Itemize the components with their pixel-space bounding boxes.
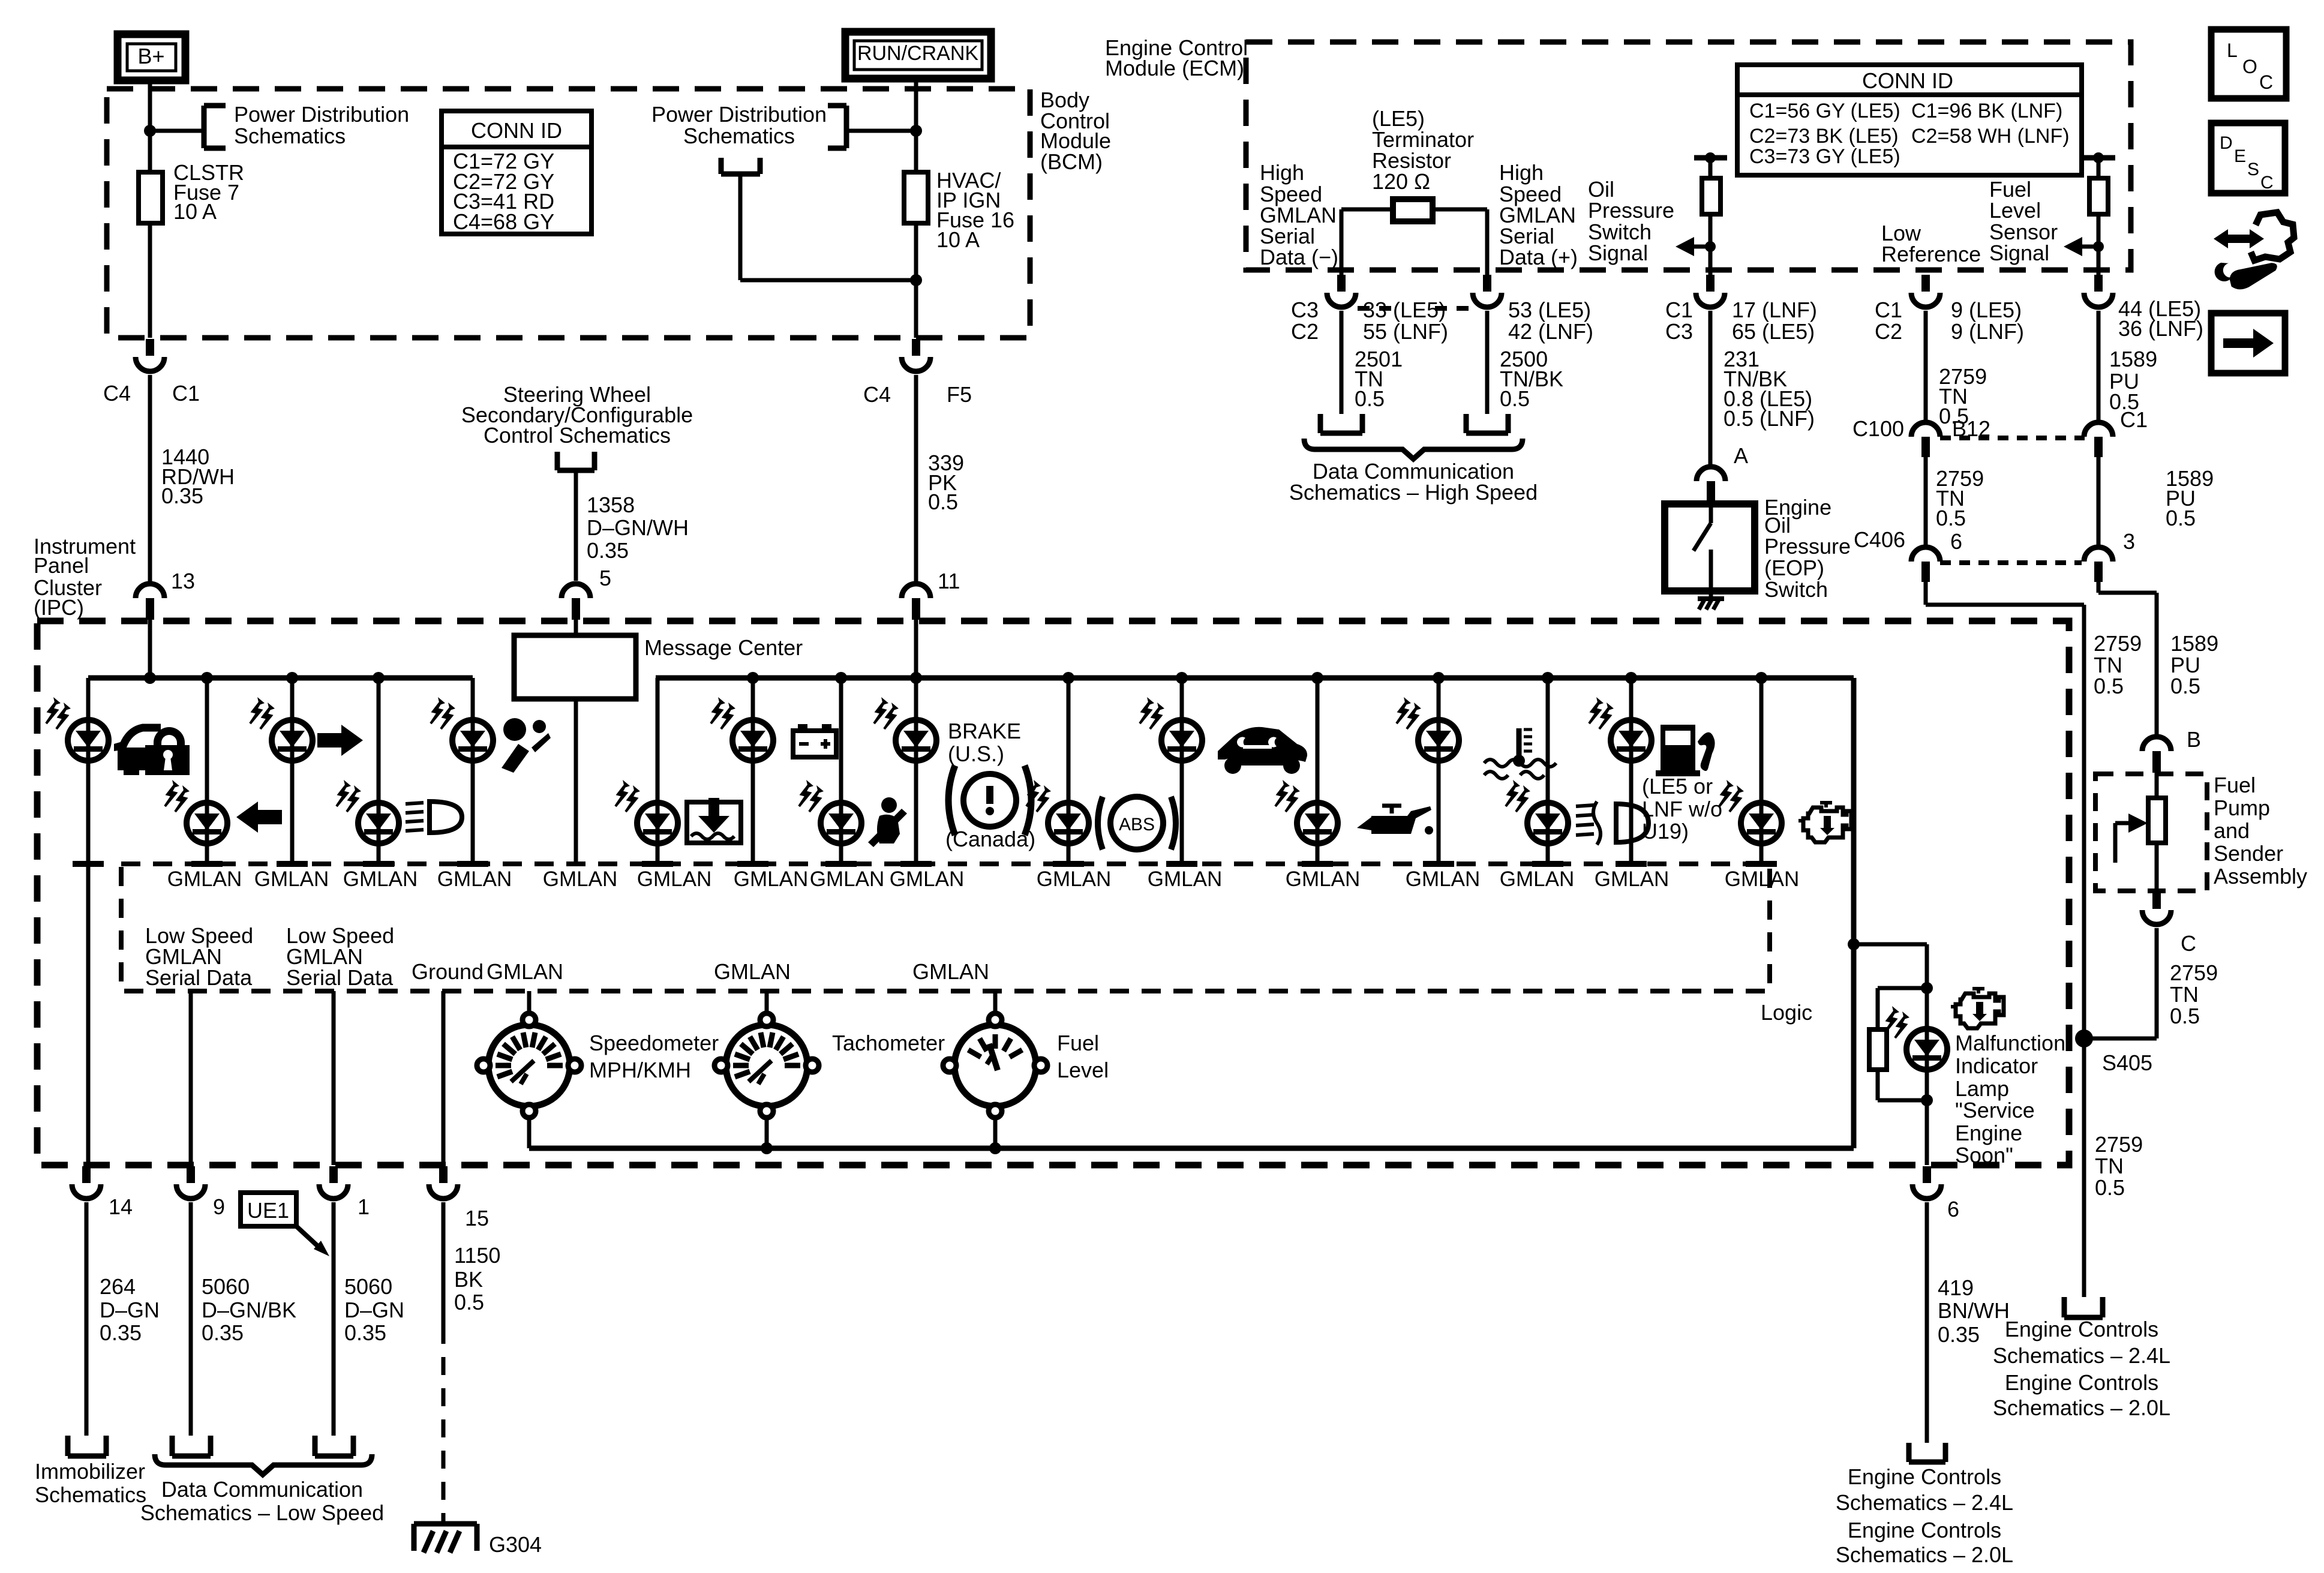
wire column seatbelt [839, 678, 843, 861]
icon vehicle with wrench [1218, 727, 1307, 766]
wire end T-bar vehicle service [1166, 861, 1197, 867]
wire end T-bar battery [737, 861, 768, 867]
svg-text:RUN/CRANK: RUN/CRANK [857, 42, 978, 65]
brace data communication low speed [155, 1454, 372, 1475]
wire end T-bar coolant temp [1423, 861, 1454, 867]
icon fog lamp [1616, 804, 1649, 842]
svg-text:55 (LNF): 55 (LNF) [1363, 319, 1448, 344]
svg-text:0.5: 0.5 [2166, 506, 2196, 530]
svg-text:High: High [1260, 160, 1304, 185]
fuel signal arrow [2064, 237, 2082, 256]
svg-text:Schematics – 2.0L: Schematics – 2.0L [1993, 1395, 2170, 1420]
svg-text:A: A [1734, 443, 1748, 468]
icon airbag person [503, 718, 526, 741]
svg-text:C1: C1 [2120, 407, 2148, 432]
connector C406/3 entry [2084, 547, 2113, 562]
icon seatbelt person [881, 797, 897, 813]
svg-text:Fuel: Fuel [2214, 773, 2256, 797]
svg-text:Signal: Signal [1989, 241, 2049, 265]
wire tachometer feed [765, 991, 769, 1014]
wire end T-bar security [73, 861, 104, 867]
svg-text:11: 11 [938, 569, 960, 593]
svg-text:C1=56 GY (LE5): C1=56 GY (LE5) [1749, 100, 1900, 122]
junction dot MIL branch [1848, 938, 1860, 950]
svg-text:Immobilizer: Immobilizer [35, 1459, 145, 1484]
svg-text:C100: C100 [1852, 416, 1904, 441]
svg-text:GMLAN: GMLAN [543, 867, 617, 891]
svg-text:Switch: Switch [1764, 577, 1828, 602]
svg-text:C2=73 BK (LE5): C2=73 BK (LE5) [1749, 125, 1899, 148]
junction dot at HVAC wire [910, 274, 922, 286]
icon arrow box [2211, 313, 2285, 373]
svg-text:C1: C1 [1665, 298, 1693, 322]
EOP switch box [1665, 504, 1755, 591]
svg-text:0.5 (LNF): 0.5 (LNF) [1724, 406, 1815, 431]
connector 15 exit IPC [439, 1166, 448, 1183]
EOP switch symbol [1709, 504, 1713, 523]
svg-text:264: 264 [100, 1274, 136, 1299]
svg-text:(BCM): (BCM) [1040, 149, 1103, 174]
svg-text:Pressure: Pressure [1588, 198, 1674, 223]
connector C4/F5 exit [912, 339, 920, 356]
wire column coolant temp [1437, 678, 1441, 861]
fuel sender wiper arrow [2113, 823, 2118, 863]
svg-text:GMLAN: GMLAN [637, 867, 711, 891]
gauge bus [529, 1146, 1854, 1151]
dashed box fuel pump assembly [2095, 774, 2207, 891]
wire end T-bar fog lamp [1532, 861, 1563, 867]
wire into IPC to bus (brake column) [914, 619, 918, 678]
svg-text:GMLAN: GMLAN [1595, 867, 1669, 891]
wire 419 BN/WH [1925, 1202, 1929, 1443]
svg-text:C: C [2260, 173, 2274, 193]
svg-text:Data (−): Data (−) [1260, 245, 1338, 269]
icon security car+lock [118, 748, 174, 770]
wire fuse16 to BCM edge [914, 223, 918, 338]
junction dot tach bus [761, 1142, 773, 1154]
wire from bracket down and right [738, 174, 743, 280]
svg-text:Pressure: Pressure [1764, 534, 1851, 559]
svg-text:2759: 2759 [2095, 1132, 2143, 1157]
junction dot bus x=1255 [747, 672, 759, 684]
wire 2759 TN jog right [1924, 582, 1928, 605]
svg-text:1150: 1150 [454, 1243, 500, 1268]
ground symbol EOP [1709, 591, 1713, 599]
right rail down to MIL junction [1851, 678, 1857, 1148]
wire column brake [914, 678, 918, 861]
wire column fuel [1629, 678, 1634, 861]
connector 14 exit IPC [82, 1166, 91, 1183]
fuse CLSTR Fuse 7 [139, 172, 163, 223]
svg-text:Pump: Pump [2214, 795, 2270, 820]
inline dashed connector line between data wires [1358, 306, 1398, 311]
wire serial data 1 [189, 991, 193, 1165]
connector data- exit ECM [1337, 275, 1346, 292]
wire message center to logic box [574, 699, 578, 861]
svg-text:0.5: 0.5 [1355, 386, 1385, 411]
svg-text:419: 419 [1938, 1275, 1974, 1300]
fuel signal resistor [2097, 158, 2101, 178]
MIL parallel resistor loop [1878, 986, 1927, 990]
junction dot run/crank branch [910, 125, 922, 137]
connector fuelsig exit ECM [2094, 275, 2103, 292]
wire tachometer to gauge bus [765, 1117, 769, 1148]
svg-text:B: B [2187, 727, 2201, 752]
icon DESC box [2211, 123, 2285, 193]
LED indicator fog lamp [1506, 780, 1568, 843]
svg-text:C4: C4 [103, 381, 131, 406]
junction dot fuel bus [989, 1142, 1001, 1154]
junction dot bus x=1402 [835, 672, 847, 684]
LED indicator turn left [165, 780, 227, 843]
svg-text:S405: S405 [2102, 1050, 2152, 1075]
svg-text:0.5: 0.5 [2170, 1004, 2200, 1028]
svg-text:CONN ID: CONN ID [1862, 68, 1953, 93]
wire column headlamp [377, 678, 381, 861]
svg-text:Tachometer: Tachometer [832, 1031, 945, 1055]
connector C exit fuel pump [2152, 892, 2161, 909]
wire to message center box [574, 619, 578, 635]
wire from C to S405 [2155, 928, 2159, 1038]
junction dot power at bus [144, 672, 156, 684]
wire to power-distribution bracket [150, 129, 204, 133]
wire fuel to gauge bus [993, 1117, 998, 1148]
label UE1 box [241, 1193, 296, 1226]
wire column security [86, 678, 91, 1165]
connector C406/6 entry [1911, 547, 1940, 562]
LED indicator airbag [431, 697, 493, 761]
connector lowref exit ECM [1921, 275, 1930, 292]
connector 1 exit IPC [329, 1166, 338, 1183]
svg-text:D–GN/WH: D–GN/WH [587, 515, 689, 540]
connector C100/B12 entry [1911, 422, 1940, 437]
svg-text:GMLAN: GMLAN [714, 959, 791, 984]
svg-text:65 (LE5): 65 (LE5) [1732, 319, 1815, 344]
svg-text:6: 6 [1950, 529, 1962, 554]
wire column battery [751, 678, 755, 861]
svg-text:0.35: 0.35 [1938, 1322, 1980, 1347]
svg-text:C: C [2181, 931, 2196, 956]
svg-text:"Service: "Service [1955, 1098, 2035, 1122]
LED indicator mil engine [1719, 780, 1782, 843]
svg-text:O: O [2242, 56, 2257, 77]
svg-text:GMLAN: GMLAN [254, 867, 329, 891]
message center box [514, 635, 636, 699]
u-bracket serial 9 [170, 1436, 175, 1456]
LED indicator seatbelt [799, 780, 861, 843]
svg-text:Power Distribution: Power Distribution [651, 102, 827, 127]
svg-text:High: High [1499, 160, 1544, 185]
svg-text:D–GN: D–GN [100, 1298, 160, 1322]
junction dot MIL bottom [1921, 1094, 1933, 1106]
svg-text:ABS: ABS [1119, 815, 1155, 834]
icon turn right arrow [317, 725, 363, 756]
svg-text:GMLAN: GMLAN [1148, 867, 1222, 891]
wire column oil pressure [1316, 678, 1320, 861]
svg-text:9: 9 [213, 1194, 225, 1219]
svg-text:G304: G304 [489, 1532, 542, 1557]
svg-text:Power Distribution: Power Distribution [234, 102, 409, 127]
icon engine (cluster indicator) [1803, 807, 1851, 842]
UE1 arrow [296, 1226, 321, 1249]
connector data+ exit ECM [1483, 275, 1491, 292]
icon brake warning [948, 766, 955, 835]
svg-text:Indicator: Indicator [1955, 1053, 2038, 1078]
wire end T-bar turn left [191, 861, 223, 867]
icon LOC box [2211, 29, 2286, 98]
bus left segment [88, 676, 473, 681]
LED indicator MIL [1885, 1006, 1947, 1070]
gauge fuel level [943, 1013, 1047, 1118]
icon engine (MIL) [1951, 989, 2004, 1028]
svg-text:C1: C1 [1875, 298, 1902, 322]
connector oil exit ECM [1706, 275, 1715, 292]
svg-text:53 (LE5): 53 (LE5) [1508, 298, 1591, 322]
wire RUN/CRANK to fuse [914, 79, 918, 172]
svg-text:GMLAN: GMLAN [890, 867, 964, 891]
svg-text:Lamp: Lamp [1955, 1076, 2009, 1101]
svg-text:C3: C3 [1665, 319, 1693, 344]
icon wrench-arrow glyph [2251, 212, 2294, 260]
svg-text:2759: 2759 [2094, 631, 2142, 656]
off-page bracket power distribution left [202, 106, 207, 148]
wire column vehicle service [1180, 678, 1184, 861]
wire 1589 PU seg2 [2097, 457, 2101, 548]
svg-text:L: L [2227, 40, 2238, 61]
svg-text:Reference: Reference [1881, 242, 1981, 266]
svg-text:Fuel: Fuel [1057, 1031, 1099, 1055]
wire end T-bar turn right [277, 861, 308, 867]
svg-text:(LE5 or: (LE5 or [1642, 774, 1713, 798]
svg-text:C2: C2 [1875, 319, 1902, 344]
off-page bracket power distribution right [844, 106, 849, 148]
icon headlamp [430, 801, 462, 833]
svg-text:D–GN/BK: D–GN/BK [202, 1298, 296, 1322]
junction dot bus x=1527 [910, 672, 922, 684]
LED indicator security [46, 697, 109, 761]
svg-text:GMLAN: GMLAN [912, 959, 989, 984]
icon low washer fluid [687, 802, 741, 843]
wire end T-bar brake [900, 861, 932, 867]
u-bracket below schematics label [719, 158, 724, 174]
svg-text:Panel: Panel [34, 553, 89, 578]
svg-text:1358: 1358 [587, 493, 635, 517]
svg-text:C: C [2259, 71, 2273, 93]
connector C100/C1 entry [2084, 422, 2113, 437]
LED indicator turn right [250, 697, 313, 761]
svg-text:GMLAN: GMLAN [1037, 867, 1111, 891]
terminator resistor 120 ohm [1393, 199, 1433, 221]
svg-text:D–GN: D–GN [344, 1298, 404, 1322]
svg-text:E: E [2234, 146, 2246, 166]
LED indicator vehicle service [1140, 697, 1202, 761]
CONN ID table (IPC) [442, 111, 591, 234]
wire column abs [1067, 678, 1071, 861]
u-bracket 419 engine controls [1906, 1443, 1912, 1462]
svg-text:Malfunction: Malfunction [1955, 1031, 2065, 1055]
dashed box Instrument Panel Cluster [37, 621, 2069, 1165]
wire 2759 TN seg2 [1924, 457, 1928, 548]
svg-text:15: 15 [465, 1206, 489, 1230]
svg-text:5: 5 [599, 566, 611, 590]
wire serial data 2 [332, 991, 336, 1165]
svg-text:GMLAN: GMLAN [810, 867, 884, 891]
svg-text:2759: 2759 [2170, 960, 2218, 985]
splice S405 [2075, 1029, 2093, 1047]
svg-text:0.5: 0.5 [1500, 386, 1530, 411]
icon oil can [1371, 806, 1431, 834]
LED indicator washer [615, 780, 678, 843]
wire 1589 PU seg1 [2097, 311, 2101, 424]
svg-text:GMLAN: GMLAN [487, 959, 563, 984]
svg-text:Message Center: Message Center [644, 635, 803, 660]
svg-text:GMLAN: GMLAN [437, 867, 512, 891]
svg-text:14: 14 [109, 1194, 133, 1219]
svg-text:Level: Level [1057, 1058, 1109, 1082]
connector C406 dashed line [1940, 560, 2082, 565]
u-bracket data+ [1464, 414, 1469, 433]
svg-text:C2=58 WH (LNF): C2=58 WH (LNF) [1911, 125, 2070, 148]
wire 5060 D-GN [332, 1202, 336, 1436]
wire data- top run [1341, 208, 1393, 212]
svg-text:6: 6 [1947, 1197, 1959, 1221]
connector C4/C1 exit [146, 339, 154, 356]
junction dot bus x=487 [286, 672, 298, 684]
wire 2759 TN to engine controls [2082, 1038, 2086, 1297]
wire speedometer to gauge bus [527, 1117, 532, 1148]
svg-text:GMLAN: GMLAN [1725, 867, 1799, 891]
wire 5060 D-GN/BK [189, 1202, 193, 1436]
fuse HVAC/IP IGN Fuse 16 [904, 172, 928, 223]
svg-text:Engine Controls: Engine Controls [2005, 1370, 2158, 1395]
junction dot MIL top [1921, 982, 1933, 994]
wire B+ to fuse [148, 80, 152, 172]
bus right segment [656, 676, 1854, 681]
svg-text:C406: C406 [1854, 527, 1905, 552]
wire 231 TN/BK [1709, 311, 1713, 467]
svg-text:and: and [2214, 818, 2250, 843]
dashed box ECM [1246, 42, 2131, 270]
svg-text:C4: C4 [863, 382, 891, 407]
svg-text:C3=73 GY (LE5): C3=73 GY (LE5) [1749, 145, 1900, 168]
svg-text:F5: F5 [947, 382, 972, 407]
svg-text:MPH/KMH: MPH/KMH [589, 1058, 691, 1082]
junction dot bus x=2719 [1625, 672, 1637, 684]
wire fuse to BCM edge [148, 223, 152, 338]
connector 11 entry into IPC [902, 584, 930, 598]
wire end T-bar seatbelt [825, 861, 857, 867]
wire column washer [656, 678, 660, 861]
wire end T-bar mil engine [1746, 861, 1777, 867]
svg-text:Schematics – 2.4L: Schematics – 2.4L [1836, 1490, 2013, 1515]
svg-text:C1=96 BK (LNF): C1=96 BK (LNF) [1911, 100, 2062, 122]
svg-text:1589: 1589 [2109, 347, 2157, 371]
junction dot bus x=631 [373, 672, 385, 684]
svg-text:BK: BK [454, 1267, 483, 1292]
u-bracket 2759 engine controls [2062, 1297, 2067, 1317]
svg-text:1: 1 [358, 1194, 370, 1219]
icon battery [793, 731, 836, 757]
svg-text:B+: B+ [137, 44, 164, 68]
wire 1358 D-GN/WH [574, 470, 578, 581]
wire 264 D-GN [85, 1202, 89, 1436]
gauge tachometer [714, 1013, 819, 1118]
wire end T-bar oil pressure [1302, 861, 1333, 867]
junction dot bus x=1970 [1176, 672, 1188, 684]
oil wire internal T-bar [1694, 155, 1727, 161]
connector 5 entry into IPC [562, 584, 590, 598]
svg-text:Schematics – High Speed: Schematics – High Speed [1289, 480, 1538, 505]
svg-text:GMLAN: GMLAN [1500, 867, 1574, 891]
svg-text:Serial Data: Serial Data [145, 965, 253, 990]
svg-text:Signal: Signal [1588, 241, 1648, 265]
wire column airbag [471, 678, 475, 861]
svg-text:0.5: 0.5 [454, 1290, 484, 1314]
svg-text:U19): U19) [1642, 819, 1689, 843]
wire 1440 RD/WH [148, 375, 152, 583]
svg-text:Schematics: Schematics [35, 1482, 146, 1507]
svg-text:0.35: 0.35 [202, 1320, 244, 1345]
svg-text:Control Schematics: Control Schematics [484, 423, 671, 448]
wire into IPC to bus [148, 619, 152, 678]
svg-text:5060: 5060 [202, 1274, 250, 1299]
wire 1150 BK dashed [442, 1326, 446, 1524]
svg-text:120 Ω: 120 Ω [1372, 169, 1430, 194]
oil wire resistor [1709, 158, 1713, 178]
junction dot bus x=2580 [1542, 672, 1554, 684]
wire speedometer feed [527, 991, 532, 1014]
svg-text:0.35: 0.35 [161, 484, 203, 508]
svg-text:1589: 1589 [2170, 631, 2218, 656]
junction dot bus x=2936 [1755, 672, 1767, 684]
wire column turn right [290, 678, 295, 861]
svg-text:C4=68 GY: C4=68 GY [453, 209, 554, 234]
svg-text:36 (LNF): 36 (LNF) [2118, 316, 2203, 341]
ground G304 [414, 1521, 477, 1527]
junction dot bus x=2398 [1433, 672, 1445, 684]
LED indicator battery [711, 697, 773, 761]
svg-text:Sender: Sender [2214, 841, 2283, 866]
CONN ID table (ECM) [1737, 65, 2082, 175]
svg-text:Schematics – Low Speed: Schematics – Low Speed [140, 1500, 384, 1525]
svg-text:Speedometer: Speedometer [589, 1031, 719, 1055]
svg-text:LNF w/o: LNF w/o [1642, 797, 1722, 821]
svg-text:(EOP): (EOP) [1764, 556, 1824, 580]
svg-text:GMLAN: GMLAN [1286, 867, 1360, 891]
svg-text:D: D [2220, 133, 2233, 153]
connector A entry EOP [1697, 467, 1725, 481]
svg-text:3: 3 [2123, 529, 2135, 554]
svg-text:C2: C2 [1291, 319, 1319, 344]
svg-text:Schematics: Schematics [683, 124, 795, 148]
gauge speedometer [477, 1013, 581, 1118]
fuel signal internal T-bar [2082, 155, 2115, 161]
svg-text:TN: TN [2095, 1154, 2124, 1178]
connector B entry fuel pump [2142, 737, 2171, 751]
svg-text:C1: C1 [172, 381, 200, 406]
svg-text:Engine Controls: Engine Controls [2005, 1317, 2158, 1341]
connector 13 entry into IPC [136, 584, 164, 598]
svg-text:Engine Controls: Engine Controls [1848, 1518, 2001, 1542]
svg-text:Module (ECM): Module (ECM) [1105, 56, 1244, 80]
power symbol B+ box [118, 34, 185, 80]
wire end T-bar airbag [457, 861, 488, 867]
svg-text:GMLAN: GMLAN [1406, 867, 1480, 891]
LED indicator brake [874, 697, 936, 761]
svg-text:Level: Level [1989, 198, 2041, 223]
icon ABS [1098, 797, 1103, 849]
wire column mil engine [1759, 678, 1764, 861]
